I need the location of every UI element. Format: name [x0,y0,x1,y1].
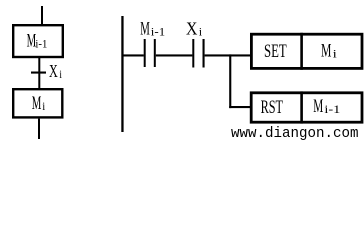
label Mi in step box [32,93,46,114]
divider of RST box [300,91,303,123]
svg-text:i: i [199,25,203,39]
transition bar Xi [31,72,46,74]
svg-text:X: X [49,61,58,81]
wire: rail to contact Mi-1 [123,54,144,56]
svg-text:SET: SET [264,42,287,62]
svg-text:M: M [32,93,42,114]
instruction box SET Mi [251,34,362,68]
label Mi-1 above first contact [140,19,165,40]
contact Xi right bar [203,39,205,68]
label Mi in SET box [321,41,338,62]
label Mi-1 in step box [27,31,48,52]
svg-text:RST: RST [261,98,283,118]
step box Mi [13,89,62,117]
wire: SFC top entry line [41,6,43,25]
svg-text:M: M [140,19,150,40]
contact Mi-1 left bar [144,39,146,67]
label Mi-1 in RST box [313,96,340,117]
svg-text:i-1: i-1 [35,37,47,51]
contact Xi left bar [192,39,194,68]
label Xi at transition [49,61,63,81]
wire: branch vertical to RST rung [229,54,231,108]
svg-text:X: X [186,19,197,39]
svg-text:i: i [59,67,62,81]
wire: SFC bottom exit line [38,119,40,139]
svg-text:i-1: i-1 [324,102,340,116]
svg-text:M: M [321,41,331,62]
wire: contact Mi-1 to contact Xi [156,54,193,56]
svg-text:www.diangon.com: www.diangon.com [231,126,359,142]
label Xi above second contact [186,19,203,39]
instruction box RST Mi-1 [251,93,362,122]
divider of SET box [300,33,303,70]
wire: branch to RST box [229,106,250,108]
svg-text:i-1: i-1 [151,25,165,39]
svg-text:M: M [313,96,323,117]
wire: between step box Mi-1 and transition [38,57,40,89]
contact Mi-1 right bar [154,39,156,67]
step box M(i-1) [13,25,63,57]
wire: contact Xi to SET box [205,54,250,56]
left power rail [121,16,123,132]
